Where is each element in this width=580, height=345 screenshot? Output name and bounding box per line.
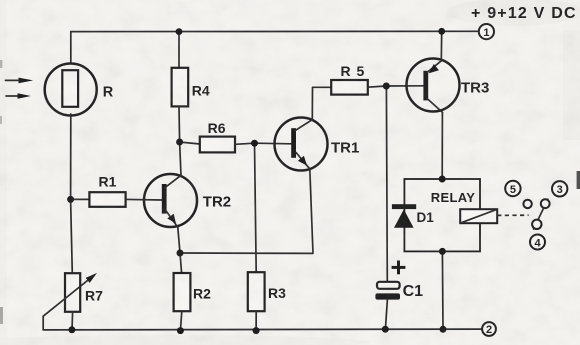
transistor TR3 xyxy=(407,59,490,113)
wire TR1 collector to R5 xyxy=(312,87,331,119)
transistor TR2 xyxy=(144,174,231,227)
wire TR3 emitter to rail xyxy=(440,31,442,61)
resistor R1 xyxy=(71,174,162,207)
terminal 4 xyxy=(530,235,545,250)
contact common pin xyxy=(532,220,541,229)
junction R4/R6/TR2 xyxy=(176,139,183,146)
resistor R3 xyxy=(248,272,286,330)
resistor R5 xyxy=(331,63,386,95)
junction relay top xyxy=(439,176,446,183)
contact NC pin xyxy=(523,200,531,208)
junction rail C1 xyxy=(382,326,389,333)
resistor R4 xyxy=(172,32,210,142)
wire TR1 emitter link to R2 node xyxy=(180,169,313,254)
terminal 5 xyxy=(505,181,520,196)
contact NO pin xyxy=(541,199,550,208)
photoresistor R xyxy=(6,32,114,116)
wire TR3 collector to relay xyxy=(441,112,443,179)
wire TR2 emitter down xyxy=(178,227,180,253)
relay coil xyxy=(460,209,497,223)
wire TR2 collector up xyxy=(180,142,181,175)
wire node B to TR1 base xyxy=(255,142,292,145)
wire bottom ground rail xyxy=(43,328,482,331)
wire R5 node to TR3 base xyxy=(386,85,423,87)
relay box xyxy=(404,179,480,251)
supply label xyxy=(471,5,577,22)
terminal 2 xyxy=(482,322,496,336)
resistor R2 xyxy=(174,253,212,331)
junction relay bottom xyxy=(439,248,446,255)
relay contact arm xyxy=(534,199,548,229)
junction R5/TR3 base/C1 xyxy=(383,83,390,90)
capacitor C1 xyxy=(375,86,423,329)
terminal 1 xyxy=(479,24,494,39)
wire relay bottom to rail xyxy=(441,251,444,329)
junction rail R2 xyxy=(177,327,184,334)
terminal 3 xyxy=(552,181,567,196)
junction R4 top xyxy=(176,28,183,35)
diode D1 xyxy=(392,204,434,228)
junction rail relay xyxy=(440,326,447,333)
transistor TR1 xyxy=(275,118,360,171)
junction LDR/R1 xyxy=(67,196,74,203)
junction rail R7 xyxy=(68,326,75,333)
dashed actuation line xyxy=(497,214,528,216)
junction TR2 emitter/R2 xyxy=(177,250,184,257)
junction TR3 rail xyxy=(438,28,445,35)
rheostat R7 xyxy=(43,273,103,330)
junction rail R3 xyxy=(253,327,260,334)
resistor R6 xyxy=(180,120,255,152)
wire top supply rail xyxy=(71,30,479,32)
wire LDR to R7 / R1 node xyxy=(71,114,73,273)
wire node B down to R3 xyxy=(255,143,257,272)
junction R6/TR1 base/R3 xyxy=(251,140,258,147)
